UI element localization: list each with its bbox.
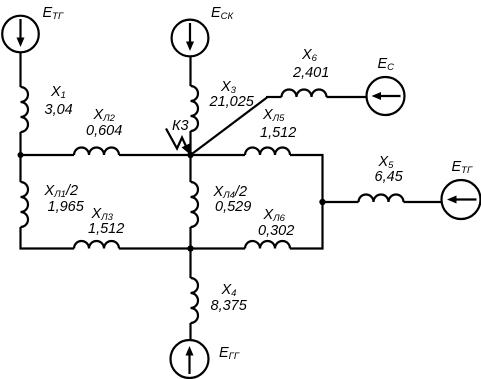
inductor X6 — [282, 90, 327, 97]
inductor X_L1/2 — [21, 182, 29, 227]
svg-text:К3: К3 — [172, 118, 189, 134]
inductor X_L3 — [74, 241, 119, 248]
svg-text:6,45: 6,45 — [375, 169, 404, 185]
EMF source E_TG right circle — [442, 180, 481, 219]
svg-text:ХЛ1/2: ХЛ1/2 — [44, 183, 79, 200]
wire: right junction to X5 — [323, 201, 359, 203]
svg-text:1,965: 1,965 — [48, 199, 85, 215]
svg-text:21,025: 21,025 — [209, 94, 255, 110]
inductor X_L5 — [245, 148, 290, 155]
svg-text:ЕТГ: ЕТГ — [452, 159, 473, 176]
wire: X_L2 to node K3 and to X_L5 — [119, 154, 245, 156]
svg-text:ХЛ6: ХЛ6 — [263, 207, 286, 224]
svg-text:Х6: Х6 — [301, 47, 318, 64]
wire: top horizontal left node to X_L2 — [20, 154, 75, 156]
wire: X6 to E_S — [327, 96, 367, 98]
wire: E_SK to X3 — [189, 56, 191, 86]
svg-text:3,04: 3,04 — [45, 102, 73, 118]
wire: X_L3 to bottom node and to X_L6 — [119, 247, 245, 249]
wire: E_TG to X1 — [19, 52, 21, 87]
E_SK arrow (down) — [186, 23, 194, 51]
wire: X_L6 to bottom right corner — [290, 247, 324, 249]
EMF source E_S right-top circle — [367, 77, 405, 115]
inductor X_L6 — [245, 241, 290, 248]
wire: X5 to E_TG right — [404, 201, 442, 203]
E_GG arrow (up) — [186, 346, 194, 374]
node: bottom middle junction — [187, 245, 193, 251]
inductor X5 — [359, 195, 404, 203]
svg-text:ЕТГ: ЕТГ — [43, 5, 64, 22]
svg-text:ХЛ2: ХЛ2 — [93, 107, 116, 124]
wire: X4 to E_GG — [189, 323, 191, 341]
svg-text:Х4: Х4 — [221, 282, 237, 299]
wire: diagonal node K3 to X6 branch — [191, 98, 268, 156]
wire: left column between node and X_L1/2, X_L1/2 to bottom corner — [19, 155, 21, 250]
svg-text:8,375: 8,375 — [211, 298, 248, 314]
node: K3 junction — [187, 152, 193, 158]
svg-text:ЕГГ: ЕГГ — [219, 345, 240, 362]
wire: X_L5 to right corner — [290, 154, 324, 156]
short-circuit arrow K3 (zigzag lightning) — [166, 129, 190, 155]
EMF source E_GG bottom circle — [171, 340, 209, 378]
wire: X3 to node K3 — [189, 131, 191, 156]
inductor X1 — [21, 87, 29, 132]
svg-text:0,604: 0,604 — [86, 123, 122, 139]
E_TG top-left arrow (down) — [17, 19, 25, 47]
svg-text:0,302: 0,302 — [258, 223, 294, 239]
inductor X4 — [191, 278, 199, 323]
svg-text:ХЛ5: ХЛ5 — [262, 107, 285, 124]
svg-text:1,512: 1,512 — [88, 221, 124, 237]
inductor X_L2 — [74, 148, 119, 155]
inductor X_L4/2 — [191, 182, 199, 227]
svg-text:0,529: 0,529 — [215, 199, 251, 215]
wire: diagonal corner to X6 — [266, 96, 282, 98]
svg-text:ЕСК: ЕСК — [211, 5, 235, 22]
wire: bottom horizontal left corner to X_L3 — [20, 247, 75, 249]
wire: bottom node to X4 — [189, 249, 191, 279]
wire: X1 to left node — [19, 132, 21, 156]
E_S arrow (left) — [372, 92, 401, 100]
svg-text:Х1: Х1 — [50, 84, 66, 101]
wire: right column top corner to bottom corner — [321, 154, 323, 250]
E_TG right arrow (left) — [447, 196, 477, 204]
node: right junction — [319, 199, 325, 205]
inductor X3 — [191, 86, 199, 131]
EMF source E_TG top-left circle — [2, 16, 39, 53]
svg-text:ЕС: ЕС — [378, 56, 395, 73]
svg-text:1,512: 1,512 — [260, 125, 296, 141]
wire: middle column node K3 to X_L4/2, and to bottom node — [189, 155, 191, 250]
svg-text:2,401: 2,401 — [292, 65, 329, 81]
node: left junction — [18, 152, 24, 158]
EMF source E_SK top circle — [172, 20, 209, 57]
